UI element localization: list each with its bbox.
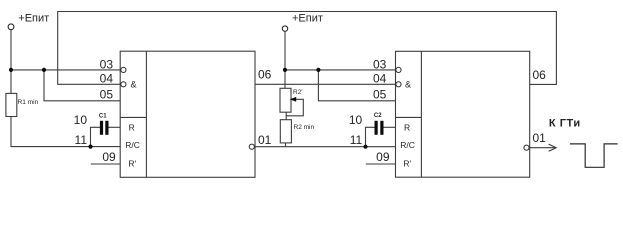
svg-text:06: 06 xyxy=(258,68,272,82)
inversion bubble U2 output 01 xyxy=(524,145,529,150)
wire: +Епит left rail down to node A (pin 03 line) and R1 top xyxy=(10,30,12,93)
wire: stub R2 min bottom to pin 11 line xyxy=(285,143,287,147)
svg-text:К ГТи: К ГТи xyxy=(549,118,581,130)
wire: U1 pin 09 (R') stub xyxy=(91,163,121,165)
svg-text:&: & xyxy=(405,80,411,90)
wire: U2 pin 03 line xyxy=(285,69,396,71)
inversion bubble U2 pin 03 xyxy=(396,67,401,72)
inversion bubble U2 pin 04 xyxy=(396,82,401,87)
svg-text:01: 01 xyxy=(533,131,547,145)
svg-text:03: 03 xyxy=(100,57,114,71)
op-amp U1 one-shot block outline xyxy=(120,51,255,177)
wire: feedback rail from U2 pin 06 over the top to U1 pin 04 xyxy=(58,12,557,85)
inversion bubble U1 output 01 xyxy=(249,144,254,149)
inversion bubble U1 pin 03 xyxy=(121,67,126,72)
junction node: U2 pin11 / C2 riser xyxy=(363,145,367,149)
svg-text:03: 03 xyxy=(373,57,387,71)
svg-text:04: 04 xyxy=(373,72,387,86)
svg-text:05: 05 xyxy=(100,88,114,102)
svg-text:R': R' xyxy=(128,158,136,168)
wire: U2 output 01 to К ГТи arrow xyxy=(530,147,556,149)
U2 left column separator xyxy=(396,116,422,118)
svg-text:+Епит: +Епит xyxy=(18,12,49,24)
svg-text:R2 min: R2 min xyxy=(294,124,315,131)
capacitor C1 plates xyxy=(100,121,103,135)
svg-text:C1: C1 xyxy=(99,113,107,119)
wire: U2 pin 09 (R') stub xyxy=(366,163,396,165)
U2 internal divider column xyxy=(420,51,422,177)
arrowhead of К ГТи output arrow xyxy=(549,144,557,151)
waveform symbol: negative pulse xyxy=(570,144,618,167)
junction node A: pin03-pin05 tie (U1) xyxy=(42,68,46,72)
svg-text:+Епит: +Епит xyxy=(292,12,323,24)
wire: +Епит right rail down to U2 pin 03 node and R2' top xyxy=(284,32,286,89)
svg-text:04: 04 xyxy=(100,72,114,86)
svg-text:R/C: R/C xyxy=(400,140,415,150)
svg-text:06: 06 xyxy=(533,68,547,82)
wire: R1 bottom down and right along U1 pin 11 (R/C) line xyxy=(11,117,121,147)
junction node: U1 pin11 / C1 riser xyxy=(88,145,92,149)
power terminal +Епит right circle xyxy=(282,26,287,31)
svg-text:09: 09 xyxy=(376,150,390,164)
R2' wiper arrowhead xyxy=(290,97,297,102)
svg-text:01: 01 xyxy=(258,133,272,147)
wire: U1 pin 03 line xyxy=(11,69,121,71)
svg-text:C2: C2 xyxy=(374,113,382,119)
svg-text:R: R xyxy=(404,123,410,133)
junction node B: U2 pin03-pin05 tie xyxy=(316,68,320,72)
wire: riser from pin11 junction up to U1 pin 10 line into C1 xyxy=(91,127,101,146)
capacitor C2 plates xyxy=(375,121,378,135)
svg-text:09: 09 xyxy=(102,150,116,164)
svg-text:R/C: R/C xyxy=(125,140,140,150)
wire: C2 right plate to U2 pin R xyxy=(383,126,396,128)
wire: node B drop to U2 pin 05 line xyxy=(318,70,396,101)
svg-text:R1 min: R1 min xyxy=(18,99,39,106)
wire: stub R2' bottom to R2 min top xyxy=(285,112,287,120)
resistor R2' body (variable) xyxy=(280,88,291,112)
resistor R2 min body xyxy=(280,120,291,143)
op-amp U2 one-shot block outline xyxy=(396,51,530,177)
svg-text:10: 10 xyxy=(349,113,363,127)
junction node: +Епит / pin03 / R1 (left) xyxy=(9,68,13,72)
U1 left column separator xyxy=(120,116,146,118)
svg-text:R2': R2' xyxy=(293,89,303,96)
wire: R2' wiper arm looped to lower terminal xyxy=(286,99,303,116)
svg-text:11: 11 xyxy=(350,133,363,147)
resistor R1 min body xyxy=(6,93,17,116)
wire: U1 output 01 to U2 pin 11 (R/C) xyxy=(254,146,396,148)
svg-text:11: 11 xyxy=(75,133,88,147)
svg-text:R': R' xyxy=(403,158,411,168)
inversion bubble U1 pin 04 xyxy=(121,82,126,87)
svg-text:&: & xyxy=(131,80,137,90)
wire: riser from U2 pin11 junction up to pin 10 line into C2 xyxy=(366,127,375,146)
wire: node A drop to U1 pin 05 line xyxy=(44,70,121,101)
power terminal +Епит left circle xyxy=(8,24,14,30)
U1 internal divider column xyxy=(145,51,147,177)
svg-text:05: 05 xyxy=(373,88,387,102)
svg-text:10: 10 xyxy=(74,113,88,127)
junction node: +Епит / U2 pin03 / R2' xyxy=(283,68,287,72)
svg-text:R: R xyxy=(129,123,135,133)
wire: U1 output 06 to U2 pin 04 xyxy=(255,83,396,85)
wire: C1 right plate to U1 pin R xyxy=(108,126,120,128)
